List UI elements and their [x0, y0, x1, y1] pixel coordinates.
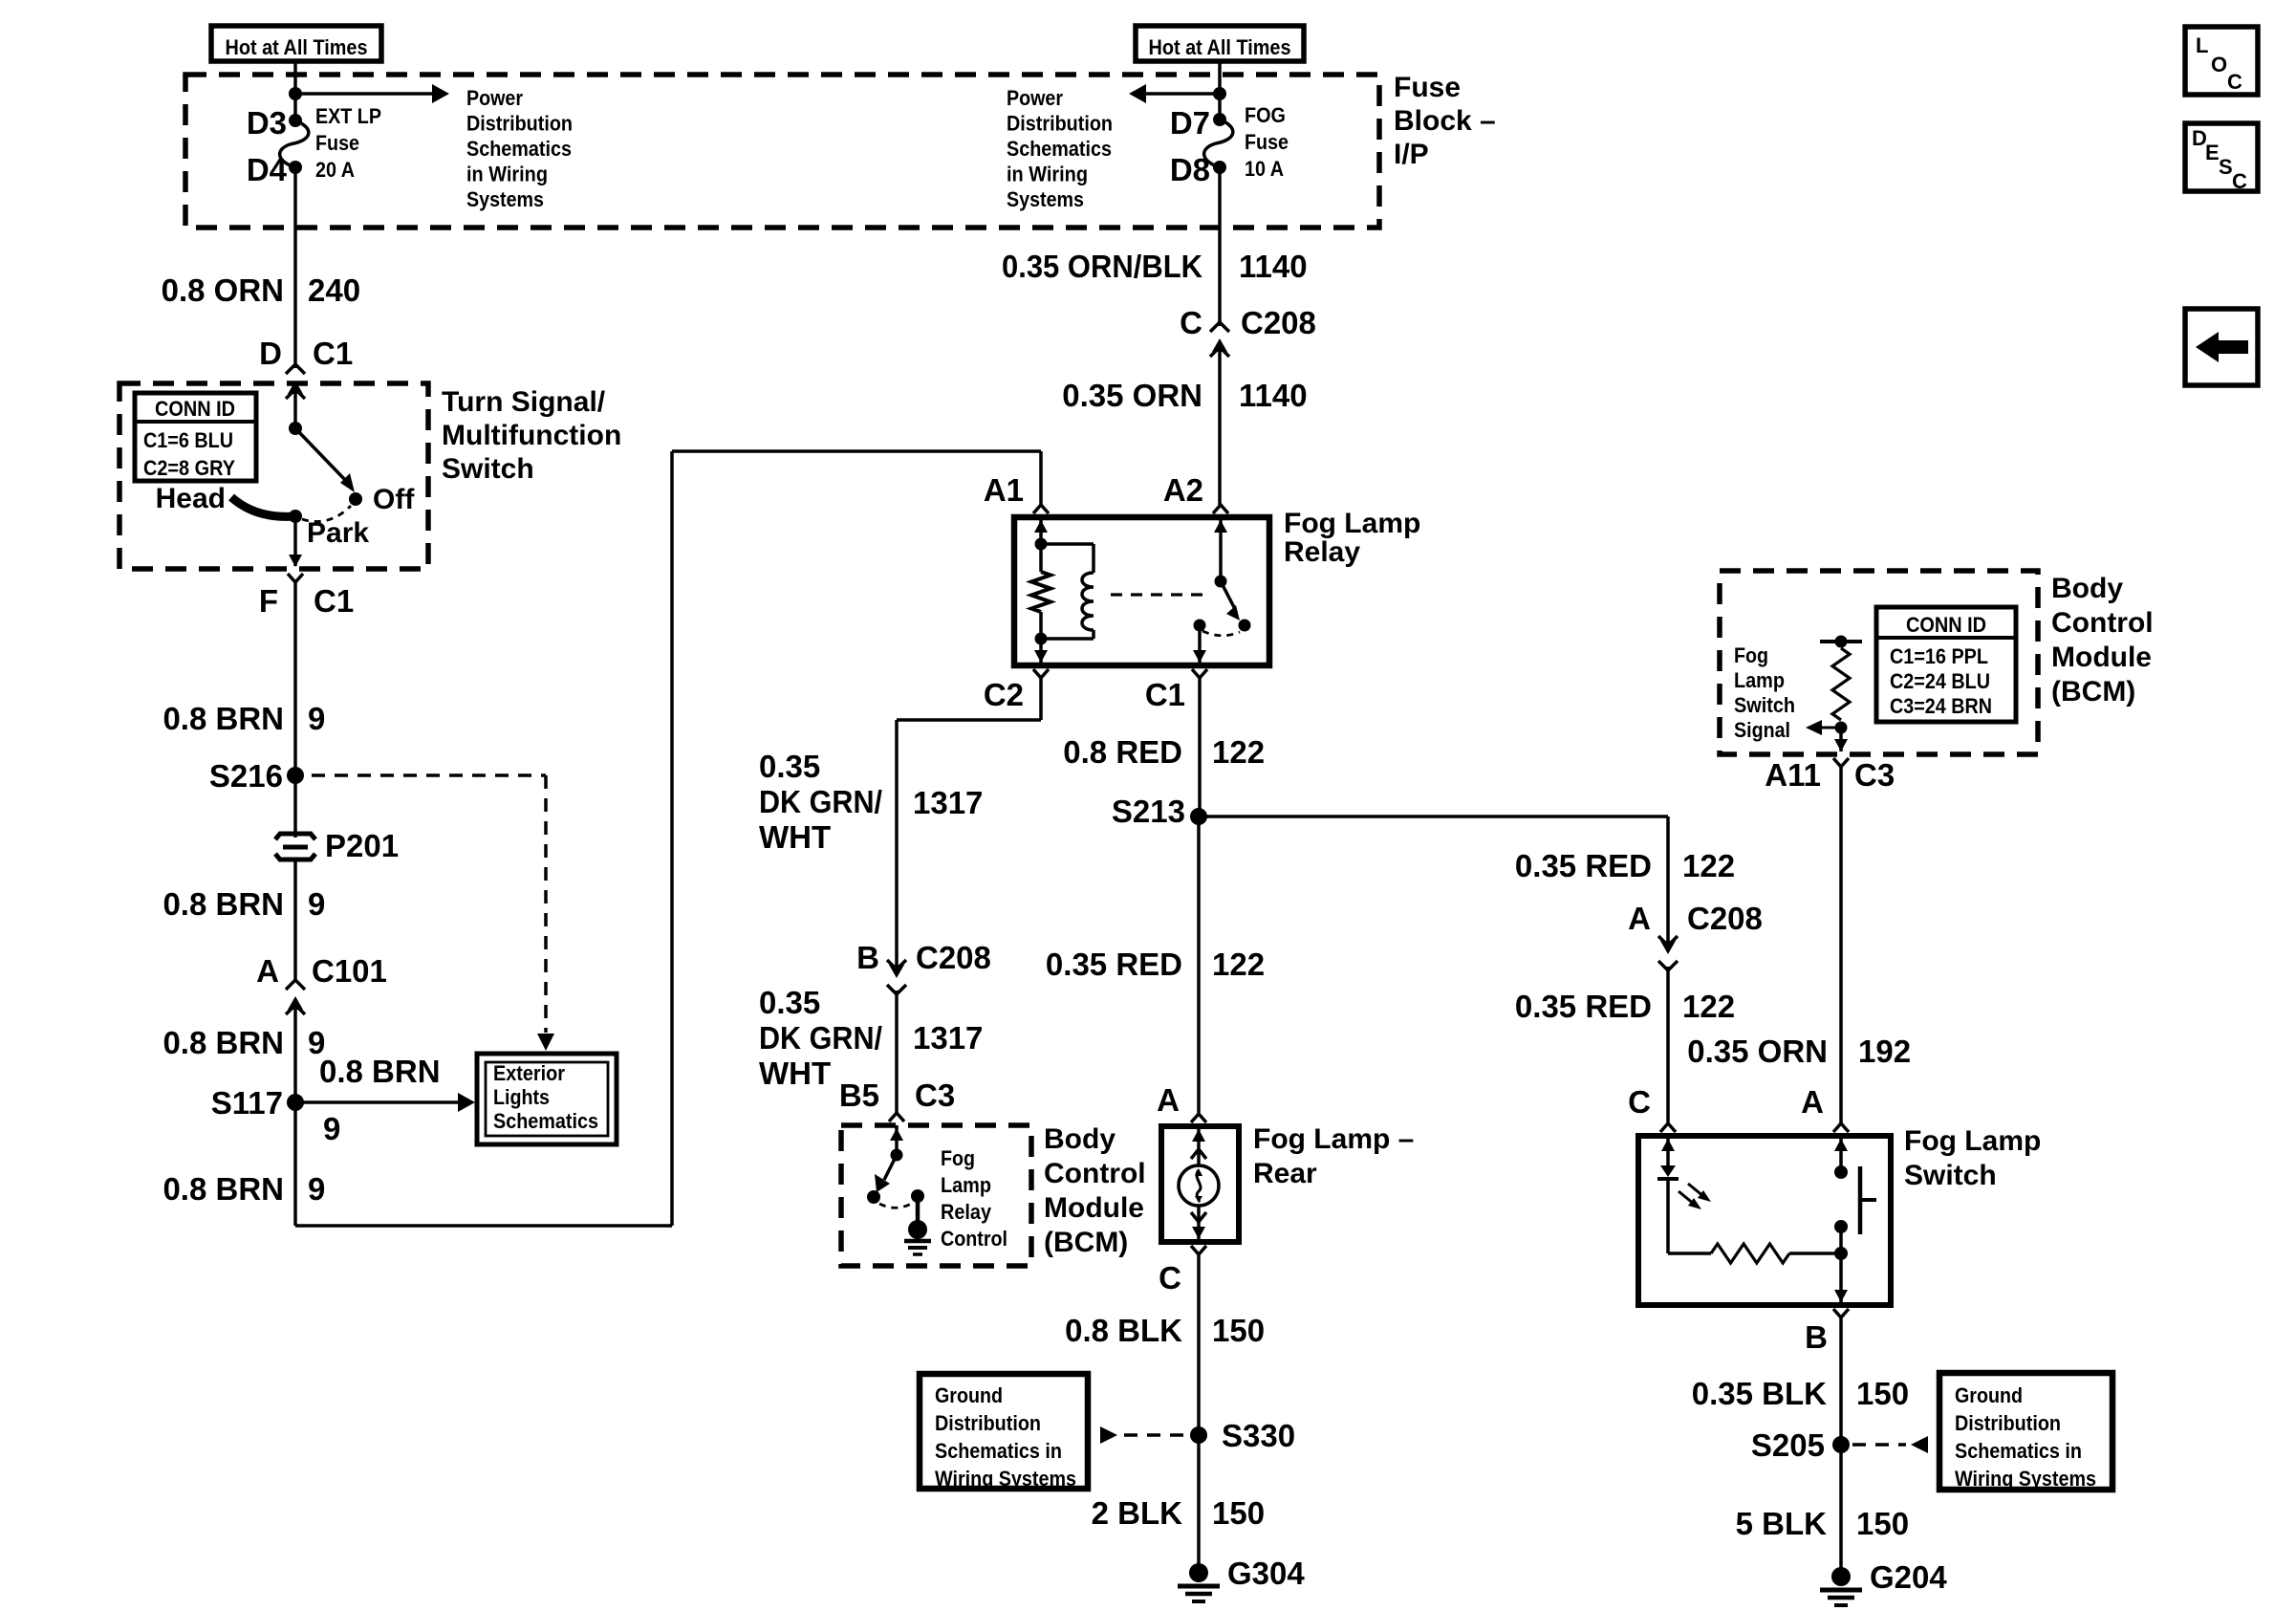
svg-text:Distribution: Distribution	[935, 1411, 1041, 1435]
svg-text:A: A	[1157, 1082, 1180, 1118]
svg-text:9: 9	[308, 886, 325, 922]
svg-text:Block –: Block –	[1394, 105, 1496, 137]
resistor: relay coil suppression resistor	[1039, 544, 1043, 572]
svg-text:I/P: I/P	[1394, 139, 1429, 170]
pin exit C2 of relay	[1034, 650, 1048, 663]
svg-text:E: E	[2205, 141, 2220, 164]
wire: 0.35 RED 122 from S213 to fog lamp rear	[1197, 816, 1201, 1113]
contact: BCM switch right	[911, 1189, 924, 1203]
svg-text:S117: S117	[211, 1085, 283, 1121]
svg-text:Switch: Switch	[442, 453, 534, 485]
svg-text:C1=6 BLU: C1=6 BLU	[143, 428, 233, 452]
pin A into fog lamp rear	[1191, 1114, 1206, 1122]
svg-text:S213: S213	[1112, 794, 1185, 829]
svg-text:9: 9	[308, 701, 325, 736]
dashed travel arc relay contacts	[1202, 631, 1240, 636]
wire: 0.8 RED 122 from relay C1 to S213	[1198, 678, 1202, 816]
svg-text:Control: Control	[2051, 607, 2154, 639]
ground G304	[1189, 1563, 1208, 1582]
svg-text:240: 240	[308, 272, 360, 308]
svg-text:Rear: Rear	[1253, 1158, 1317, 1189]
svg-text:150: 150	[1856, 1506, 1909, 1541]
fuse F2: FOG Fuse 10 A	[1213, 113, 1226, 126]
svg-text:Hot at All Times: Hot at All Times	[1149, 35, 1291, 59]
wire: BCM node down to A11 exit	[1839, 728, 1843, 751]
wire: LED cathode down and to resistor	[1666, 1179, 1670, 1253]
connector C101 pin A	[286, 980, 305, 990]
splice S330	[1190, 1426, 1207, 1444]
svg-text:Ground: Ground	[1955, 1383, 2023, 1407]
svg-text:B: B	[856, 940, 879, 975]
legend box LOC	[2185, 27, 2258, 95]
table: CONN ID C1=6 BLU C2=8 GRY	[135, 393, 256, 481]
pin exit C of fog lamp rear	[1191, 1246, 1206, 1254]
svg-text:Distribution: Distribution	[466, 112, 573, 136]
svg-text:L: L	[2196, 33, 2208, 57]
svg-text:0.8 ORN: 0.8 ORN	[162, 272, 284, 308]
dashed actuation link coil to armature	[1111, 593, 1202, 596]
splice S205	[1832, 1436, 1850, 1453]
svg-text:Distribution: Distribution	[1955, 1411, 2061, 1435]
svg-text:1317: 1317	[913, 1020, 983, 1056]
svg-text:Systems: Systems	[466, 187, 544, 211]
svg-text:0.35 RED: 0.35 RED	[1515, 848, 1652, 883]
pin A into fog lamp switch	[1833, 1123, 1849, 1132]
svg-text:Relay: Relay	[941, 1200, 992, 1224]
fog lamp relay box	[1014, 517, 1269, 665]
svg-text:0.35 BLK: 0.35 BLK	[1692, 1376, 1827, 1411]
node: BCM switch pivot	[891, 1149, 903, 1162]
svg-text:S330: S330	[1222, 1418, 1295, 1453]
contact: switch button bottom	[1834, 1220, 1848, 1233]
power feed box: Hot at All Times (left)	[211, 26, 381, 61]
svg-text:Fog Lamp: Fog Lamp	[1904, 1125, 2041, 1157]
svg-text:Fuse: Fuse	[315, 131, 359, 155]
svg-text:0.35: 0.35	[759, 985, 820, 1020]
node: switch output junction	[1839, 1227, 1843, 1253]
svg-text:Distribution: Distribution	[1007, 112, 1113, 136]
contact: Park	[289, 510, 302, 523]
svg-text:C: C	[2227, 70, 2242, 94]
svg-text:20 A: 20 A	[315, 158, 355, 182]
wire: 0.35 RED 122 from S213 to C208 A	[1199, 815, 1668, 818]
arrow: Fog Lamp Switch Signal (internal)	[1822, 727, 1841, 729]
svg-text:Wiring Systems: Wiring Systems	[1955, 1467, 2096, 1491]
svg-text:Exterior: Exterior	[493, 1061, 565, 1085]
wire: 0.35 DK GRN/WHT 1317 from C208 B to BCM B5	[895, 991, 899, 1113]
reference box: Exterior Lights Schematics	[477, 1054, 617, 1144]
relay armature arm with arrowhead	[1221, 581, 1235, 609]
wire: relay A2 internal to armature pivot	[1219, 517, 1223, 581]
resistor: BCM pull-up for fog lamp switch signal	[1820, 640, 1862, 643]
connector C208 pin C	[1210, 322, 1229, 332]
svg-text:Fuse: Fuse	[1245, 130, 1289, 154]
svg-text:in Wiring: in Wiring	[466, 163, 548, 186]
dashed reference arrow to S205	[1852, 1443, 1906, 1447]
svg-text:G304: G304	[1227, 1556, 1305, 1591]
svg-text:0.8 BRN: 0.8 BRN	[162, 1171, 284, 1207]
svg-text:Body: Body	[1044, 1123, 1116, 1155]
ground G204	[1831, 1567, 1851, 1586]
pin A2 of fog lamp relay	[1213, 505, 1228, 513]
node: switch pivot	[289, 422, 302, 435]
svg-text:A: A	[1801, 1084, 1824, 1120]
pin C into fog lamp switch	[1660, 1123, 1676, 1132]
BCM internal switch arm	[884, 1155, 897, 1180]
svg-text:A1: A1	[984, 472, 1024, 508]
svg-text:0.8 RED: 0.8 RED	[1063, 734, 1182, 770]
wire: BCM switch right contact to internal ground	[916, 1196, 921, 1224]
svg-text:S216: S216	[209, 758, 283, 794]
reference box: Ground Distribution Schematics in Wiring Systems (right)	[1939, 1373, 2112, 1490]
wire: 0.8 ORN 240 from EXT LP fuse to multifunction switch	[293, 167, 297, 368]
svg-text:Power: Power	[466, 86, 523, 110]
svg-text:150: 150	[1856, 1376, 1909, 1411]
wire: 0.8 BRN 9 segment 1	[293, 582, 297, 838]
wire: 0.35 BLK 150 from switch B to S205	[1839, 1317, 1843, 1577]
svg-text:Relay: Relay	[1284, 536, 1360, 568]
wire: arrow to Power Distribution Schematics (left)	[295, 92, 432, 96]
svg-text:S: S	[2219, 155, 2233, 179]
svg-text:150: 150	[1212, 1313, 1265, 1348]
svg-text:DK GRN/: DK GRN/	[759, 1020, 882, 1056]
svg-text:Fog: Fog	[941, 1146, 975, 1170]
svg-text:122: 122	[1682, 989, 1735, 1024]
wire: 0.35 ORN/BLK 1140 from FOG fuse to C208	[1218, 167, 1222, 326]
svg-text:Module: Module	[1044, 1192, 1144, 1224]
wire: BCM internal B5 to switch pivot	[895, 1125, 899, 1155]
svg-text:0.35 ORN: 0.35 ORN	[1062, 378, 1202, 413]
fog lamp switch box	[1638, 1136, 1891, 1305]
wire: 0.35 ORN 192 from BCM A11 to fog lamp switch A	[1839, 766, 1843, 1123]
LED: fog lamp switch indicator	[1666, 1136, 1670, 1165]
svg-text:EXT LP: EXT LP	[315, 104, 381, 128]
wire: relay A1 internal to coil node	[1039, 517, 1043, 544]
fuse block - I/P dashed box	[185, 75, 1379, 228]
wire: 0.35 RED 122 from C208 A to fog lamp switch C	[1666, 967, 1670, 1123]
svg-text:in Wiring: in Wiring	[1007, 163, 1088, 186]
svg-text:1317: 1317	[913, 785, 983, 820]
svg-text:Fuse: Fuse	[1394, 72, 1461, 103]
svg-text:192: 192	[1858, 1034, 1911, 1069]
connector C1 pin D (turn signal switch)	[286, 364, 305, 374]
legend box back-arrow	[2185, 309, 2258, 385]
svg-text:0.8 BRN: 0.8 BRN	[162, 1025, 284, 1060]
svg-text:0.35 RED: 0.35 RED	[1046, 947, 1182, 982]
node: left feed junction	[289, 87, 302, 100]
svg-text:150: 150	[1212, 1495, 1265, 1531]
svg-text:Control: Control	[941, 1227, 1007, 1251]
svg-text:10 A: 10 A	[1245, 157, 1284, 181]
svg-text:Fog: Fog	[1734, 643, 1768, 667]
reference box: Ground Distribution Schematics in Wiring Systems (left)	[920, 1374, 1088, 1489]
svg-text:Multifunction: Multifunction	[442, 420, 621, 451]
contact arc: Head position (thick)	[231, 497, 295, 516]
svg-text:Fog Lamp: Fog Lamp	[1284, 508, 1420, 539]
svg-text:CONN ID: CONN ID	[1906, 613, 1986, 637]
svg-text:C208: C208	[1241, 305, 1316, 340]
svg-text:0.35: 0.35	[759, 749, 820, 784]
svg-text:C1: C1	[1145, 677, 1185, 712]
table: CONN ID C1=16 PPL C2=24 BLU C3=24 BRN	[1876, 607, 2016, 722]
wire: relay coil bottom to C2 exit	[1039, 639, 1043, 663]
svg-text:C2=24 BLU: C2=24 BLU	[1890, 669, 1990, 693]
svg-text:122: 122	[1682, 848, 1735, 883]
svg-text:C: C	[1628, 1084, 1651, 1120]
wire: relay left contact down to C1 exit	[1198, 625, 1202, 663]
svg-text:9: 9	[308, 1171, 325, 1207]
svg-text:WHT: WHT	[759, 819, 831, 855]
node: relay coil bottom	[1035, 633, 1048, 645]
svg-text:D: D	[259, 336, 282, 371]
pin exit: switch bottom (F)	[289, 555, 302, 567]
contact: relay output to C1 (left)	[1194, 620, 1206, 632]
wire: 0.8 BLK 150 from fog lamp rear to S330	[1197, 1254, 1201, 1573]
contact: switch button top	[1834, 1165, 1848, 1179]
svg-text:CONN ID: CONN ID	[155, 397, 235, 421]
switch arm: pivot toward Off	[295, 428, 347, 482]
dashed arc BCM switch	[879, 1203, 913, 1208]
ground: BCM internal ground	[908, 1220, 927, 1239]
svg-text:0.8 BRN: 0.8 BRN	[162, 701, 284, 736]
svg-text:Schematics in: Schematics in	[1955, 1439, 2082, 1463]
turn signal / multifunction switch dashed box	[119, 383, 428, 569]
dashed reference arrow to S330	[1100, 1426, 1117, 1444]
svg-text:Lights: Lights	[493, 1085, 550, 1109]
svg-text:Wiring Systems: Wiring Systems	[935, 1467, 1076, 1491]
svg-text:5 BLK: 5 BLK	[1736, 1506, 1828, 1541]
node: relay armature pivot	[1215, 576, 1227, 588]
wire: junction to B exit	[1839, 1253, 1843, 1302]
svg-text:A2: A2	[1163, 472, 1203, 508]
fog lamp - rear box	[1161, 1126, 1239, 1242]
contact: Off	[349, 492, 362, 506]
svg-text:Power: Power	[1007, 86, 1063, 110]
svg-text:DK GRN/: DK GRN/	[759, 784, 882, 819]
svg-text:C3: C3	[915, 1078, 955, 1113]
svg-text:B: B	[1805, 1319, 1828, 1355]
svg-text:0.35 RED: 0.35 RED	[1515, 989, 1652, 1024]
svg-text:D4: D4	[247, 152, 288, 187]
splice S117	[287, 1094, 304, 1111]
wire: 0.35 DK GRN/WHT 1317 from relay C2 to C208 B	[1039, 678, 1043, 720]
svg-text:(BCM): (BCM)	[1044, 1227, 1128, 1258]
svg-text:0.35 ORN: 0.35 ORN	[1687, 1034, 1828, 1069]
pin exit C1 of relay	[1193, 650, 1206, 663]
wire: S117 branch arrow to Exterior Lights Schematics	[295, 1100, 459, 1104]
connector C208 pin A	[1660, 941, 1676, 954]
svg-text:Off: Off	[373, 484, 415, 515]
node: right feed junction	[1213, 87, 1226, 100]
contact: relay NO (right)	[1239, 620, 1251, 632]
svg-text:Schematics: Schematics	[466, 137, 572, 161]
body control module (switch signal) dashed box	[1720, 571, 2038, 754]
node: relay coil top	[1035, 538, 1048, 551]
svg-text:9: 9	[323, 1111, 340, 1146]
svg-text:0.8 BRN: 0.8 BRN	[162, 886, 284, 922]
wire: switch A internal to button contact	[1839, 1136, 1843, 1172]
lamp: rear fog bulb	[1197, 1126, 1201, 1165]
pin exit A11 C3 of BCM	[1834, 739, 1848, 751]
dashed travel arc Park to Off	[302, 506, 351, 522]
resistor: fog lamp switch	[1711, 1244, 1789, 1263]
svg-text:S205: S205	[1751, 1427, 1825, 1463]
grommet P201	[275, 834, 315, 839]
splice S216	[287, 767, 304, 784]
svg-text:C208: C208	[1687, 901, 1763, 936]
svg-text:C2=8 GRY: C2=8 GRY	[143, 456, 235, 480]
wire: 0.8 BRN 9 between P201 and C101	[293, 860, 297, 980]
svg-text:Switch: Switch	[1734, 693, 1795, 717]
fuse F1: EXT LP Fuse 20 A	[289, 114, 302, 127]
contact: BCM switch left	[867, 1190, 880, 1204]
svg-text:C2: C2	[984, 677, 1024, 712]
svg-text:0.35 ORN/BLK: 0.35 ORN/BLK	[1002, 249, 1202, 284]
svg-text:Control: Control	[1044, 1158, 1146, 1189]
svg-text:Hot at All Times: Hot at All Times	[226, 35, 368, 59]
svg-text:C1: C1	[313, 336, 353, 371]
node: fog lamp switch signal	[1835, 722, 1848, 734]
svg-text:Lamp: Lamp	[1734, 668, 1785, 692]
wire: 0.35 ORN 1140 from C208 to relay A2	[1218, 352, 1222, 505]
wire: long run from multifunction switch to relay A1	[293, 1102, 297, 1226]
LED emission arrows	[1679, 1191, 1695, 1205]
svg-text:122: 122	[1212, 947, 1265, 982]
wire: right feed from Hot at All Times	[1218, 61, 1222, 120]
svg-text:D7: D7	[1170, 105, 1210, 141]
dashed reference wire S216 to Exterior Lights Schematics	[312, 773, 546, 777]
svg-text:Signal: Signal	[1734, 718, 1790, 742]
svg-text:C3: C3	[1854, 757, 1895, 793]
svg-text:A: A	[1628, 901, 1651, 936]
connector C208 pin B	[889, 965, 904, 978]
svg-text:C: C	[2232, 169, 2247, 193]
svg-text:C208: C208	[916, 940, 991, 975]
legend box DESC	[2185, 123, 2258, 191]
svg-text:Turn Signal/: Turn Signal/	[442, 386, 606, 418]
svg-text:Schematics: Schematics	[1007, 137, 1112, 161]
svg-text:2 BLK: 2 BLK	[1092, 1495, 1183, 1531]
svg-text:Body: Body	[2051, 573, 2123, 604]
relay coil winding	[1041, 542, 1094, 546]
svg-text:B5: B5	[839, 1078, 879, 1113]
svg-text:Schematics in: Schematics in	[935, 1439, 1062, 1463]
wire: left feed from Hot at All Times into fuse block	[293, 61, 297, 120]
svg-text:C1: C1	[314, 583, 354, 619]
wire: 0.8 BRN 9 between C101 and S117	[293, 1009, 297, 1102]
svg-text:122: 122	[1212, 734, 1265, 770]
svg-text:Schematics: Schematics	[493, 1109, 598, 1133]
pin exit B of fog lamp switch	[1834, 1290, 1848, 1302]
svg-text:Fog Lamp –: Fog Lamp –	[1253, 1123, 1414, 1155]
svg-text:A: A	[256, 953, 279, 989]
pin A1 of fog lamp relay	[1033, 505, 1049, 513]
svg-text:D3: D3	[247, 105, 287, 141]
svg-text:C3=24 BRN: C3=24 BRN	[1890, 694, 1992, 718]
svg-text:0.8 BLK: 0.8 BLK	[1065, 1313, 1182, 1348]
svg-text:C: C	[1180, 305, 1202, 340]
svg-text:G204: G204	[1870, 1559, 1947, 1595]
svg-text:D8: D8	[1170, 152, 1210, 187]
svg-text:1140: 1140	[1239, 249, 1308, 284]
svg-text:Ground: Ground	[935, 1383, 1003, 1407]
svg-text:0.8 BRN: 0.8 BRN	[319, 1054, 441, 1089]
svg-text:WHT: WHT	[759, 1056, 831, 1091]
splice S213	[1190, 808, 1207, 825]
svg-text:(BCM): (BCM)	[2051, 676, 2135, 708]
svg-text:1140: 1140	[1239, 378, 1308, 413]
body control module (relay control) dashed box	[841, 1125, 1031, 1266]
svg-text:C1=16 PPL: C1=16 PPL	[1890, 644, 1988, 668]
wire: switch feed into pivot	[293, 394, 297, 428]
svg-text:FOG: FOG	[1245, 103, 1286, 127]
power feed box: Hot at All Times (right)	[1136, 26, 1304, 61]
svg-text:Lamp: Lamp	[941, 1173, 991, 1197]
svg-text:Switch: Switch	[1904, 1160, 1997, 1191]
pin B5 C3 into BCM (relay control)	[889, 1113, 904, 1121]
svg-text:Systems: Systems	[1007, 187, 1084, 211]
wire: arrow to Power Distribution Schematics (right)	[1146, 92, 1220, 96]
svg-text:C: C	[1159, 1260, 1181, 1295]
svg-text:C101: C101	[312, 953, 387, 989]
svg-text:P201: P201	[325, 828, 399, 863]
svg-text:O: O	[2211, 53, 2227, 76]
wire: Park contact down to switch exit	[293, 516, 297, 566]
svg-text:F: F	[259, 583, 278, 619]
push button symbol	[1858, 1166, 1863, 1234]
svg-text:A11: A11	[1765, 757, 1821, 793]
svg-text:Head: Head	[156, 483, 226, 514]
svg-text:Module: Module	[2051, 642, 2152, 673]
